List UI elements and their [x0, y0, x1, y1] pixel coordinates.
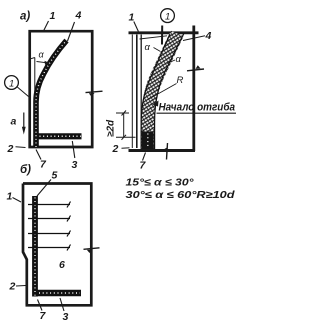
svg-text:1: 1	[165, 12, 170, 23]
stirrups 6 (fig b)	[28, 202, 71, 251]
break mark on fig a right edge	[86, 91, 103, 97]
svg-text:α: α	[39, 50, 45, 60]
figure b concrete outline	[23, 184, 91, 306]
svg-text:4: 4	[75, 10, 82, 22]
detail extension line	[131, 35, 133, 149]
break mark on fig b right edge	[84, 248, 100, 253]
label 5 (fig b)	[37, 170, 58, 197]
label 3 (fig a)	[72, 141, 78, 171]
detail circle 1 heading	[161, 9, 175, 45]
start of bend note	[153, 101, 237, 114]
label 1 (detail)	[129, 12, 139, 32]
svg-text:α: α	[145, 42, 151, 53]
svg-text:1: 1	[7, 191, 13, 203]
label 7 (detail)	[140, 153, 147, 172]
label 4 (detail)	[183, 30, 212, 42]
alpha label lower (detail)	[167, 54, 182, 65]
label 1 (fig b)	[7, 191, 22, 203]
svg-text:а): а)	[20, 11, 30, 23]
figure a label	[20, 11, 30, 23]
label 6 (fig b)	[59, 259, 65, 271]
dimension a label	[11, 116, 17, 128]
svg-text:α: α	[176, 54, 182, 65]
bent bar in detail (hatched)	[141, 33, 184, 149]
vertical bar 5 in fig b (stippled)	[32, 196, 38, 297]
svg-text:≥2d: ≥2d	[106, 119, 117, 137]
angle reference line (fig a)	[31, 58, 35, 113]
svg-text:6: 6	[59, 259, 65, 271]
svg-text:2: 2	[112, 143, 119, 155]
label 2 (detail)	[112, 143, 130, 155]
alpha label upper (detail)	[140, 36, 168, 53]
detail frame bottom edge	[129, 143, 196, 160]
angle alpha label (fig a)	[37, 50, 50, 65]
svg-text:3: 3	[72, 159, 78, 171]
label 1 (fig a)	[43, 10, 56, 32]
break mark on detail right edge	[187, 65, 204, 71]
bottom bar 3 in fig a (stippled)	[38, 133, 82, 139]
label 7 (fig b)	[38, 300, 47, 322]
angle condition line 1	[126, 178, 195, 189]
detail frame right edge	[192, 26, 195, 152]
svg-text:15°≤ α ≤ 30°: 15°≤ α ≤ 30°	[126, 178, 195, 189]
label 2 (fig a)	[7, 143, 26, 155]
figure a concrete outline	[30, 31, 92, 147]
label 2 (fig b)	[9, 281, 26, 293]
svg-text:1: 1	[9, 79, 14, 90]
label 3 (fig b)	[60, 298, 69, 322]
angle condition line 2	[126, 190, 236, 201]
svg-text:2: 2	[9, 281, 16, 293]
svg-text:б): б)	[20, 164, 31, 176]
label 7 (fig a)	[36, 150, 47, 171]
svg-text:3: 3	[63, 311, 69, 322]
svg-text:Начало отгиба: Начало отгиба	[159, 101, 236, 113]
detail frame top edge	[129, 31, 199, 34]
radius R label (detail)	[148, 75, 184, 100]
detail circle 1 (fig a)	[5, 76, 29, 97]
dimension a arrow	[22, 113, 26, 135]
detail straight bar reference line	[140, 35, 142, 149]
svg-text:5: 5	[52, 170, 58, 182]
svg-text:а: а	[11, 116, 17, 128]
svg-text:2: 2	[7, 143, 14, 155]
bent bar 4 in fig a (stippled)	[36, 41, 67, 148]
figure b label	[20, 164, 31, 176]
svg-text:1: 1	[50, 10, 56, 22]
detail wall face line	[136, 35, 138, 149]
label 4 (fig a)	[68, 10, 82, 42]
svg-text:R: R	[177, 75, 184, 86]
bottom bar 3 in fig b (stippled)	[37, 290, 81, 296]
svg-text:4: 4	[205, 30, 212, 42]
dimension >=2d (detail)	[106, 111, 136, 140]
svg-text:30°≤ α ≤ 60°R≥10d: 30°≤ α ≤ 60°R≥10d	[126, 190, 236, 201]
